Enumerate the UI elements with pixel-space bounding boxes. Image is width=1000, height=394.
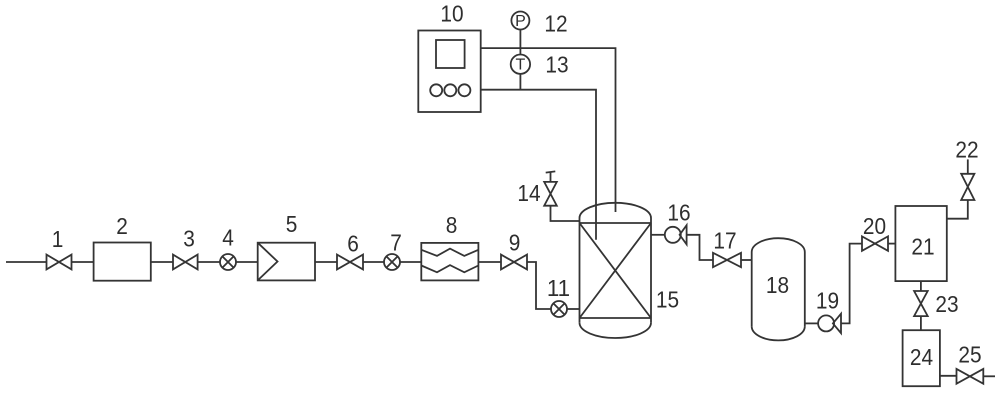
valve 14 (vertical): [544, 182, 557, 206]
svg-text:24: 24: [910, 344, 933, 370]
wire vessel18 to pump19: [805, 322, 818, 324]
svg-text:6: 6: [347, 231, 359, 257]
wire lower: box10 to vessel15 interior: [481, 90, 596, 240]
wire valve1 to box2: [72, 261, 94, 263]
wire upper: box10 to vessel15 top: [481, 48, 616, 212]
svg-text:20: 20: [863, 213, 886, 239]
svg-text:9: 9: [509, 230, 521, 256]
vessel 15 packing X: [580, 223, 652, 318]
wire pump19 up to valve20: [841, 244, 862, 324]
valve 17: [713, 253, 741, 267]
svg-text:17: 17: [713, 228, 736, 254]
valve 23 (vertical): [914, 291, 928, 316]
svg-text:13: 13: [545, 52, 568, 78]
svg-text:5: 5: [286, 211, 298, 237]
svg-text:7: 7: [390, 230, 402, 256]
wire box21 down to valve23: [920, 281, 922, 291]
wire valve14 to vessel15: [551, 206, 580, 221]
wire stub above valve22: [967, 159, 969, 173]
valve 1: [47, 255, 72, 270]
svg-text:23: 23: [935, 291, 958, 317]
svg-text:3: 3: [183, 226, 195, 252]
controller button 2: [444, 84, 456, 96]
svg-text:22: 22: [955, 137, 978, 163]
vessel 15 packing box lines: [580, 223, 652, 318]
wire box8 to valve9: [478, 261, 501, 263]
svg-text:10: 10: [440, 1, 463, 27]
crossed-circle fitting 7: [384, 254, 400, 270]
svg-text:25: 25: [958, 342, 981, 368]
wire outlet after valve25: [983, 375, 995, 377]
box 5 (with inlet triangle): [258, 243, 315, 281]
vessel 15 shell: [580, 218, 652, 323]
controller box 10: [418, 31, 480, 113]
svg-text:2: 2: [116, 213, 128, 239]
wire valve17 to vessel18: [741, 259, 752, 261]
valve 20: [862, 236, 888, 250]
temperature gauge T 13: [511, 54, 530, 73]
heat exchanger box 8: [421, 243, 478, 281]
svg-text:12: 12: [544, 11, 567, 37]
pump 16: [665, 227, 681, 243]
valve 22 (vertical): [961, 174, 974, 200]
wire node7 to box8: [400, 261, 421, 263]
crossed-circle fitting 11: [551, 301, 567, 317]
svg-text:15: 15: [656, 287, 679, 313]
box 2: [94, 243, 151, 281]
crossed-circle fitting 4: [220, 254, 236, 270]
valve 14 stem tick: [546, 171, 556, 172]
valve 6: [337, 255, 363, 270]
svg-text:18: 18: [766, 272, 789, 298]
wire P to T: [519, 30, 521, 55]
wire valve20 to box21: [888, 243, 895, 245]
valve 14 stem: [550, 172, 552, 182]
svg-text:16: 16: [667, 200, 690, 226]
svg-text:11: 11: [547, 275, 570, 301]
wire node4 to box5: [236, 261, 258, 263]
box 21: [895, 206, 946, 281]
pressure gauge P 12: [511, 12, 529, 30]
pump 19: [818, 315, 834, 331]
controller display square: [436, 40, 465, 68]
wire valve3 to node4: [198, 261, 220, 263]
box 24: [903, 330, 940, 386]
svg-text:8: 8: [446, 212, 458, 238]
svg-text:T: T: [516, 57, 526, 74]
wire valve6 to node7: [363, 261, 384, 263]
wire box5 to valve6: [315, 261, 337, 263]
controller button 1: [430, 84, 442, 96]
wire T down to lower wire: [519, 74, 521, 90]
vessel 18 shell: [752, 252, 805, 326]
wire valve9 down to node11: [527, 262, 551, 309]
wire pump16 to valve17: [687, 235, 713, 260]
svg-text:14: 14: [517, 180, 540, 206]
wire node11 to vessel15: [567, 308, 580, 310]
valve 3: [173, 255, 198, 270]
wire valve23 to box24: [920, 316, 922, 330]
wire box24 to valve25: [940, 375, 957, 377]
wire box21 to valve22: [947, 200, 968, 219]
controller button 3: [458, 84, 470, 96]
svg-text:P: P: [515, 13, 526, 30]
wire box2 to valve3: [151, 261, 173, 263]
svg-text:21: 21: [911, 234, 934, 260]
svg-text:19: 19: [816, 288, 839, 314]
wire inlet to valve 1: [6, 261, 47, 263]
svg-text:1: 1: [52, 226, 64, 252]
svg-text:4: 4: [222, 225, 234, 251]
valve 25: [957, 369, 984, 384]
valve 9: [501, 255, 527, 270]
wire vessel15 to pump16: [651, 234, 665, 236]
